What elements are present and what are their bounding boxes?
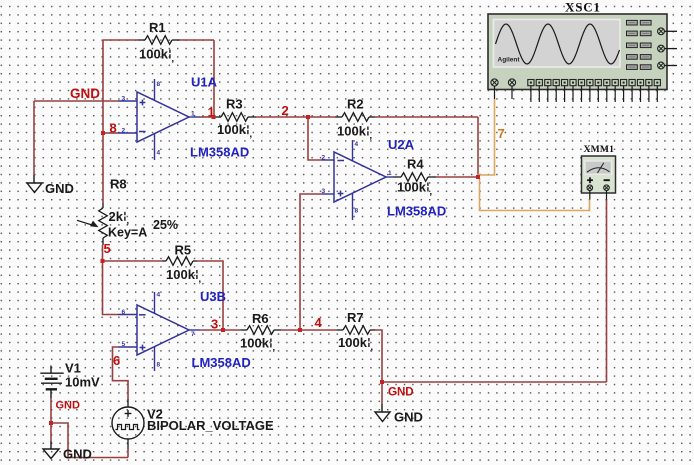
op-amp U3B - mark: [139, 314, 146, 316]
svg-text:8: 8: [157, 81, 161, 88]
wire R7 to GND corner: [375, 330, 382, 382]
junction node 7: [476, 175, 480, 179]
svg-text:8: 8: [110, 120, 117, 135]
svg-text:10mV: 10mV: [65, 375, 100, 390]
svg-text:100k: 100k: [166, 267, 196, 282]
instrument XMM1 body: [582, 156, 616, 193]
wire node 7 to XMM1 plus orange: [480, 178, 590, 211]
svg-text:GND: GND: [388, 386, 414, 398]
instrument XSC1 buttons: [627, 20, 638, 25]
wire R1 loop top-right: [180, 39, 214, 41]
svg-text:,: ,: [171, 53, 174, 64]
op-amp U2A input stub pin2: [322, 159, 334, 161]
svg-text:8: 8: [157, 361, 161, 368]
wire GND3 stub: [381, 382, 383, 404]
instrument XMM1 plus mark: [587, 179, 593, 181]
svg-text:2: 2: [282, 103, 289, 118]
wire R1 loop top-left: [103, 39, 138, 41]
svg-text:LM358AD: LM358AD: [190, 144, 249, 159]
svg-text:Agilent: Agilent: [498, 57, 521, 64]
instrument XMM1 screen: [585, 161, 612, 174]
svg-text:,: ,: [369, 130, 372, 141]
svg-text:7: 7: [498, 126, 505, 141]
wire GND1 vertical: [33, 101, 35, 175]
ground top-left stub: [33, 175, 35, 183]
op-amp U3B output stub pin7: [189, 329, 200, 331]
op-amp U3B input stub pin5: [118, 346, 137, 348]
source V2 waveform glyph: [116, 425, 140, 430]
svg-text:2: 2: [122, 127, 126, 134]
op-amp U3B power pin 4: [154, 292, 156, 314]
source V2 plus mark: [125, 413, 132, 415]
junction node 3: [221, 328, 225, 332]
source V2 top stub: [127, 400, 129, 408]
junction GND bottom-right: [380, 380, 384, 384]
svg-text:6: 6: [122, 309, 126, 316]
op-amp U2A triangle: [334, 152, 386, 202]
svg-text:U1A: U1A: [191, 75, 218, 90]
wire R4 to node 7: [436, 176, 478, 178]
potentiometer R8 wiper arrow: [77, 220, 92, 225]
svg-text:,: ,: [198, 274, 201, 285]
instrument XMM1 minus mark: [604, 179, 610, 181]
wire V1 to GND junction: [50, 398, 52, 441]
op-amp U2A power pin 4: [352, 140, 354, 161]
op-amp U3B input stub pin6: [118, 314, 137, 316]
svg-text:,: ,: [429, 186, 432, 197]
svg-text:XMM1: XMM1: [584, 144, 615, 155]
source V2 circle: [112, 407, 144, 439]
svg-text:100k: 100k: [240, 336, 270, 351]
op-amp U3B power pin 8: [154, 347, 156, 372]
svg-text:Key=A: Key=A: [108, 226, 147, 240]
svg-text:25%: 25%: [153, 218, 178, 232]
ground bottom-right stub: [381, 404, 383, 412]
instrument XMM1 terminal stubs: [589, 191, 591, 200]
svg-text:BIPOLAR_VOLTAGE: BIPOLAR_VOLTAGE: [147, 418, 274, 433]
svg-text:3: 3: [322, 188, 326, 195]
ground bottom-left: [43, 449, 59, 459]
op-amp U2A input stub pin3: [322, 193, 334, 195]
wire GND junction to V2 bottom: [51, 423, 128, 458]
svg-text:XSC1: XSC1: [565, 0, 601, 15]
svg-text:4: 4: [315, 315, 323, 330]
instrument XMM1 terminals: [587, 185, 593, 191]
svg-text:1: 1: [388, 170, 392, 177]
svg-text:5: 5: [122, 341, 126, 348]
op-amp U2A power pin 8: [352, 194, 354, 221]
resistor R2: [335, 116, 342, 118]
svg-text:GND: GND: [394, 409, 423, 424]
wire node 5 to R5: [103, 260, 163, 262]
source V2 bottom stub: [127, 439, 129, 449]
op-amp U1A power pin 8: [154, 79, 156, 101]
svg-text:4: 4: [157, 150, 161, 157]
svg-text:100k: 100k: [217, 122, 247, 137]
op-amp U2A + mark: [338, 193, 344, 195]
junction GND at V1: [49, 421, 53, 425]
wire V2 bottom stub red: [127, 449, 129, 458]
wire U3B + input to V2: [113, 347, 129, 400]
svg-text:R6: R6: [252, 311, 269, 326]
resistor R4: [393, 176, 401, 178]
svg-text:3: 3: [122, 95, 126, 102]
svg-text:R1: R1: [149, 20, 166, 35]
svg-text:GND: GND: [45, 181, 74, 196]
wire node 5 vertical to U3B - input: [103, 245, 119, 315]
op-amp U1A triangle: [137, 92, 189, 142]
svg-text:GND: GND: [56, 400, 81, 412]
op-amp U1A + mark: [140, 102, 146, 104]
svg-text:,: ,: [249, 129, 252, 140]
wire node 8 to U1A - input: [103, 132, 118, 134]
wire R1 left vertical down to R8: [102, 40, 104, 203]
op-amp U2A - mark: [337, 160, 344, 162]
wire XMM1 minus vertical: [606, 199, 608, 382]
potentiometer R8 body: [102, 203, 104, 208]
wire R1 right vertical to node 1: [213, 40, 215, 117]
wire GND to U1A + input: [34, 100, 118, 102]
svg-text:100k: 100k: [397, 180, 427, 195]
wire node 7 to XSC1 orange: [478, 99, 495, 177]
wire U1A output to node 1: [200, 116, 214, 118]
op-amp U2A output stub pin1: [386, 176, 393, 178]
svg-text:GND: GND: [63, 446, 92, 461]
svg-text:R4: R4: [407, 157, 424, 172]
battery V1: [50, 366, 52, 374]
op-amp U1A input stub pin2: [118, 132, 137, 134]
instrument XSC1 right connectors: [658, 28, 665, 35]
svg-text:U2A: U2A: [388, 137, 415, 152]
junction node 8: [101, 131, 105, 135]
svg-text:100k: 100k: [139, 47, 169, 62]
wire GND long horizontal to XMM1: [382, 381, 607, 383]
svg-text:3: 3: [211, 316, 218, 331]
svg-text:7: 7: [191, 331, 195, 338]
resistor R6: [241, 329, 247, 331]
ground bottom-right: [375, 412, 390, 422]
ground bottom-left stub: [50, 441, 52, 449]
svg-text:,: ,: [272, 342, 275, 353]
svg-text:,: ,: [370, 342, 373, 353]
resistor R5: [162, 260, 166, 262]
svg-text:LM358AD: LM358AD: [192, 355, 251, 370]
svg-text:R2: R2: [347, 97, 364, 112]
svg-text:U3B: U3B: [200, 289, 226, 304]
svg-text:4: 4: [157, 291, 161, 298]
wire node 1 R3 to R2: [256, 116, 335, 118]
svg-text:2k: 2k: [109, 209, 124, 224]
op-amp U1A input stub pin3: [118, 100, 137, 102]
op-amp U1A output stub pin1: [189, 116, 200, 118]
svg-text:8: 8: [355, 208, 359, 215]
wire U3B output to R6: [200, 329, 241, 331]
svg-text:5: 5: [104, 241, 111, 256]
svg-text:4: 4: [355, 141, 359, 148]
junction node 1: [212, 115, 216, 119]
svg-text:100k: 100k: [338, 335, 368, 350]
wire node 7 vertical: [477, 117, 479, 177]
op-amp U3B + mark: [140, 347, 146, 349]
svg-text:GND: GND: [70, 86, 100, 101]
resistor R7: [337, 329, 343, 331]
junction node 2: [306, 115, 310, 119]
op-amp U1A - mark: [139, 131, 146, 133]
svg-text:R8: R8: [110, 177, 127, 192]
svg-text:1: 1: [191, 110, 195, 117]
op-amp U3B triangle: [137, 305, 189, 355]
instrument XSC1 body and screen: [488, 14, 667, 90]
wire R5 to node 3 vertical: [197, 261, 223, 330]
ground top-left: [27, 183, 42, 193]
svg-text:R7: R7: [347, 310, 364, 325]
resistor R1: [138, 39, 145, 41]
svg-text:R5: R5: [175, 243, 192, 258]
svg-text:R3: R3: [226, 97, 243, 112]
svg-text:LM358AD: LM358AD: [387, 204, 446, 219]
svg-text:V1: V1: [65, 361, 81, 376]
svg-text:6: 6: [113, 353, 120, 368]
resistor R3: [214, 116, 221, 118]
svg-text:2: 2: [322, 154, 326, 161]
wire node 2 down to U2A: [308, 117, 322, 160]
svg-text:100k: 100k: [337, 124, 367, 139]
instrument XSC1 bottom terminals: [491, 79, 498, 86]
wire R2 to node 7 horizontal: [375, 116, 478, 118]
wire R6 to R7 node 4: [281, 329, 337, 331]
op-amp U1A power pin 4: [154, 134, 156, 161]
wire U2A + input from node 4: [300, 194, 322, 330]
junction node 5: [101, 259, 105, 263]
junction node 4: [298, 328, 302, 332]
